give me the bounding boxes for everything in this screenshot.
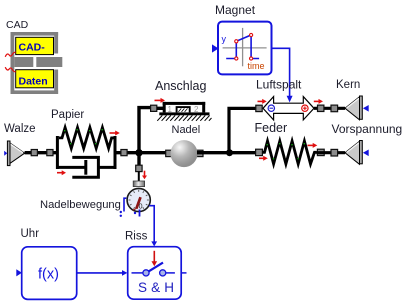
svg-text:Anschlag: Anschlag bbox=[155, 79, 206, 93]
red direction arrow (Papier bottom left) bbox=[57, 170, 66, 175]
svg-text:S & H: S & H bbox=[138, 280, 174, 295]
spring-damper Papier bbox=[57, 128, 115, 178]
svg-text:Kern: Kern bbox=[336, 79, 360, 91]
red direction arrow (Papier top right) bbox=[110, 131, 120, 136]
force element Luftspalt (double arrow) bbox=[263, 97, 314, 120]
wire Papier to Nadel bbox=[115, 150, 171, 156]
red direction arrow (Feder top right) bbox=[308, 143, 318, 148]
wire axis junction to Anschlag bbox=[139, 105, 163, 153]
wire Luftspalt to Kern bbox=[314, 105, 345, 112]
svg-text:Vorspannung: Vorspannung bbox=[332, 122, 403, 136]
wire junction to sensor bbox=[136, 153, 142, 182]
svg-text:f(x): f(x) bbox=[38, 267, 59, 283]
red direction arrow (sensor, down) bbox=[142, 171, 147, 180]
svg-text:CAD: CAD bbox=[6, 19, 29, 31]
hard stop Anschlag bbox=[157, 102, 211, 121]
svg-text:y: y bbox=[222, 34, 227, 44]
mass Nadel (sphere with flange squares) bbox=[166, 140, 203, 167]
sample-and-hold block Riss bbox=[128, 247, 187, 300]
clock block Uhr bbox=[16, 247, 76, 300]
svg-text:Nadelbewegung: Nadelbewegung bbox=[40, 199, 121, 211]
red direction arrow (Feder bottom left) bbox=[259, 156, 268, 161]
fixed mount Vorspannung bbox=[345, 141, 369, 165]
svg-text:Walze: Walze bbox=[4, 123, 36, 135]
svg-text:time: time bbox=[248, 61, 265, 71]
table CAD (CAD-Daten CombiTimeTable) bbox=[5, 32, 62, 94]
green specks on spring bbox=[64, 129, 103, 144]
wire Nadel to Feder with junction bbox=[197, 151, 256, 154]
fixed mount Walze bbox=[4, 141, 24, 166]
spring Feder bbox=[256, 141, 325, 164]
wire Feder to Vorspannung bbox=[317, 149, 346, 156]
svg-text:Magnet: Magnet bbox=[215, 3, 256, 17]
svg-text:Luftspalt: Luftspalt bbox=[256, 78, 302, 92]
wire junction to Luftspalt bbox=[229, 105, 262, 153]
junction node (axis / Luftspalt) bbox=[226, 149, 233, 156]
svg-text:CAD-: CAD- bbox=[19, 42, 46, 54]
svg-text:Papier: Papier bbox=[51, 109, 84, 121]
fixed mount Kern bbox=[345, 96, 369, 120]
svg-text:Daten: Daten bbox=[19, 76, 48, 88]
red direction arrow (Luftspalt right) bbox=[314, 99, 323, 104]
svg-text:Feder: Feder bbox=[255, 121, 288, 135]
svg-text:1: 1 bbox=[168, 105, 173, 114]
svg-text:0: 0 bbox=[139, 203, 143, 210]
red direction arrow (Luftspalt left) bbox=[258, 99, 267, 104]
signal source Magnet (TimeTable) bbox=[212, 22, 272, 75]
sensor foot marks bbox=[120, 198, 140, 217]
red direction arrow (Anschlag) bbox=[155, 98, 166, 103]
position sensor Nadelbewegung (gauge) bbox=[120, 181, 151, 217]
svg-text:Uhr: Uhr bbox=[21, 228, 40, 240]
wire Walze to Papier bbox=[25, 150, 57, 156]
signal wire sensor to Riss bbox=[149, 206, 157, 247]
junction node (axis / Anschlag / sensor) bbox=[135, 149, 142, 156]
signal wire Magnet to Luftspalt bbox=[272, 48, 293, 102]
svg-text:Nadel: Nadel bbox=[172, 124, 201, 136]
svg-text:2: 2 bbox=[194, 105, 199, 114]
svg-text:Riss: Riss bbox=[125, 230, 148, 242]
signal wire Uhr to Riss bbox=[77, 270, 127, 276]
